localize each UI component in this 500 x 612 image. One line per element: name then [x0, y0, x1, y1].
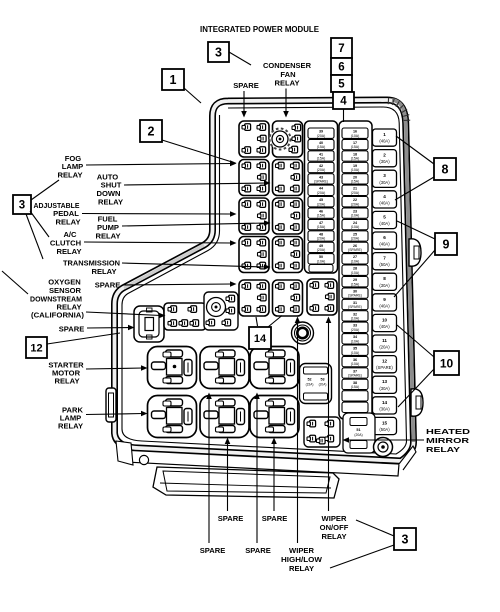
leader spare b1	[208, 397, 210, 543]
right edge tab lower	[411, 389, 423, 416]
svg-text:12: 12	[382, 359, 388, 364]
bottom right stud circle	[374, 438, 393, 457]
svg-text:7: 7	[383, 256, 386, 261]
fuse 48	[308, 231, 334, 241]
svg-text:(15A): (15A)	[351, 145, 360, 149]
fuse box outer wall (double line)	[115, 100, 414, 461]
fuse 19	[342, 162, 368, 172]
fuse 14 (large)	[373, 397, 397, 414]
mounting tray	[153, 467, 339, 498]
svg-text:(30A): (30A)	[379, 180, 390, 185]
fuse 15 (large)	[373, 417, 397, 434]
fuse 40	[308, 139, 334, 149]
right edge tab upper	[409, 239, 421, 266]
callout box 7	[331, 38, 352, 58]
svg-text:(15A): (15A)	[351, 385, 360, 389]
svg-text:ON/OFF: ON/OFF	[320, 523, 349, 532]
starter relay center dot	[173, 365, 177, 369]
relay module A4	[239, 237, 269, 273]
leader from 10	[397, 325, 434, 357]
leader from 3 bottom right	[356, 520, 394, 536]
leader wiper high/low	[297, 321, 299, 543]
svg-text:(50A): (50A)	[379, 427, 390, 432]
blank slot col1	[309, 265, 333, 273]
svg-text:(30A): (30A)	[379, 159, 390, 164]
fuse 18	[342, 151, 368, 161]
fuses 52 and 53	[300, 364, 332, 404]
svg-text:SPARE: SPARE	[233, 81, 259, 90]
svg-text:(30A): (30A)	[379, 406, 390, 411]
fuse 7 (large)	[373, 253, 397, 270]
big relay R1C2	[200, 347, 249, 389]
big relay R1C3	[250, 347, 299, 389]
fuse 16	[342, 128, 368, 138]
relay module B5	[273, 280, 303, 316]
fuse 20	[342, 174, 368, 184]
svg-text:(20A): (20A)	[317, 248, 326, 252]
svg-text:WIPER: WIPER	[289, 546, 314, 555]
svg-text:SPARE: SPARE	[95, 281, 121, 290]
fuse 5 (large)	[373, 211, 397, 228]
svg-text:3: 3	[383, 173, 386, 178]
svg-text:3: 3	[402, 533, 409, 547]
leader a/c clutch	[84, 242, 232, 243]
fuse 29	[342, 277, 368, 287]
svg-text:2: 2	[148, 125, 155, 139]
svg-text:52: 52	[307, 378, 311, 382]
svg-text:(10A): (10A)	[351, 225, 360, 229]
fuse 44	[308, 185, 334, 195]
svg-text:HIGH/LOW: HIGH/LOW	[281, 555, 323, 564]
leader fog	[86, 164, 232, 166]
svg-text:9: 9	[443, 238, 450, 252]
fuse 2 (large)	[373, 150, 397, 167]
fuse 3 (large)	[373, 170, 397, 187]
svg-text:WIPER: WIPER	[322, 514, 347, 523]
fuse 51 enclosure	[343, 413, 375, 453]
callout box 6	[331, 58, 352, 75]
relay module B2	[273, 160, 303, 196]
svg-text:(15A): (15A)	[351, 282, 360, 286]
leader adjustable pedal	[82, 213, 232, 216]
callout box 10	[434, 351, 459, 375]
fuse 42	[308, 162, 334, 172]
fuse 31	[342, 299, 368, 309]
fuse 47	[308, 219, 334, 229]
svg-text:(15A): (15A)	[351, 157, 360, 161]
blank fuse slot	[342, 402, 368, 412]
relay module C5	[307, 279, 337, 315]
svg-text:(20A): (20A)	[379, 345, 390, 350]
svg-text:MIRROR: MIRROR	[426, 436, 470, 445]
big relay R2C2	[200, 396, 249, 438]
fuse 45	[308, 197, 334, 207]
svg-text:14: 14	[382, 400, 388, 405]
left edge tab	[106, 388, 116, 422]
fuse 17	[342, 139, 368, 149]
leader from 9	[397, 221, 435, 239]
svg-text:(15A): (15A)	[317, 157, 326, 161]
callout box 3	[208, 42, 229, 62]
leader spare b2	[227, 442, 229, 511]
oxygen sensor downstream relay module	[164, 303, 206, 330]
fuse 28	[342, 265, 368, 275]
svg-text:4: 4	[383, 194, 386, 199]
svg-text:(20A): (20A)	[351, 328, 360, 332]
svg-text:(10A): (10A)	[351, 168, 360, 172]
fuse 38	[342, 379, 368, 389]
svg-text:8: 8	[442, 163, 449, 177]
leader spare 12	[87, 327, 130, 330]
svg-text:14: 14	[254, 333, 267, 345]
svg-text:(10A): (10A)	[351, 317, 360, 321]
svg-text:(40A): (40A)	[379, 139, 390, 144]
leader wiper on/off	[328, 321, 330, 511]
wiper relay module	[304, 417, 340, 447]
leaders from 14	[256, 317, 258, 326]
fuse 23	[342, 208, 368, 218]
svg-text:(10A): (10A)	[351, 134, 360, 138]
svg-text:(10A): (10A)	[351, 214, 360, 218]
leader park lamp	[86, 414, 143, 415]
svg-text:8: 8	[383, 276, 386, 281]
callout box 9	[435, 233, 457, 255]
svg-text:RELAY: RELAY	[321, 532, 346, 541]
svg-text:INTEGRATED POWER MODULE: INTEGRATED POWER MODULE	[200, 25, 320, 34]
callout box 3	[13, 195, 31, 214]
fuse 43	[308, 174, 334, 184]
svg-text:(20A): (20A)	[351, 202, 360, 206]
bottom-left corner bracket	[116, 441, 133, 465]
leader oxygen	[86, 312, 161, 316]
svg-text:(SPARE): (SPARE)	[348, 305, 362, 309]
svg-text:HEATED: HEATED	[426, 427, 471, 436]
leader from 4 stack	[343, 109, 345, 122]
svg-text:RELAY: RELAY	[54, 377, 79, 386]
relay module B3	[273, 198, 303, 234]
svg-text:(15A): (15A)	[317, 225, 326, 229]
fuse 9 (large)	[373, 294, 397, 311]
svg-text:(15A): (15A)	[306, 383, 314, 387]
svg-text:SPARE: SPARE	[218, 514, 244, 523]
svg-text:10: 10	[382, 317, 388, 322]
svg-text:(20A): (20A)	[351, 191, 360, 195]
svg-text:RELAY: RELAY	[289, 564, 314, 573]
blank fuse slot	[342, 391, 368, 401]
svg-text:RELAY: RELAY	[57, 171, 82, 180]
svg-text:53: 53	[320, 378, 324, 382]
svg-text:(10A): (10A)	[351, 362, 360, 366]
callout box 1	[162, 69, 184, 90]
base plate right end	[399, 446, 416, 470]
mini fuse enclosure right	[339, 121, 372, 419]
fuse 39	[308, 128, 334, 138]
fuse 35	[342, 345, 368, 355]
svg-text:SPARE: SPARE	[59, 325, 85, 334]
callout box 3	[394, 528, 416, 550]
fuse 13 (large)	[373, 376, 397, 393]
svg-text:(30A): (30A)	[379, 283, 390, 288]
svg-text:(10A): (10A)	[351, 271, 360, 275]
relay module A1 (spare)	[239, 121, 269, 157]
starter motor relay	[148, 347, 197, 389]
svg-text:1: 1	[383, 132, 386, 137]
svg-text:RELAY: RELAY	[55, 218, 80, 227]
fuse 8 (large)	[373, 273, 397, 290]
fuse 50	[308, 254, 334, 264]
svg-text:4: 4	[340, 96, 347, 108]
svg-text:(CALIFORNIA): (CALIFORNIA)	[31, 311, 84, 320]
svg-text:(30A): (30A)	[379, 386, 390, 391]
fuse 41	[308, 151, 334, 161]
svg-text:(SPARE): (SPARE)	[348, 374, 362, 378]
svg-text:(SPARE): (SPARE)	[314, 180, 328, 184]
svg-text:9: 9	[383, 297, 386, 302]
svg-text:RELAY: RELAY	[58, 422, 83, 431]
svg-text:51: 51	[356, 428, 360, 432]
svg-text:1: 1	[170, 73, 177, 87]
leader spare b4	[273, 442, 275, 511]
svg-text:15: 15	[382, 420, 388, 425]
svg-text:(20A): (20A)	[317, 202, 326, 206]
svg-text:(SPARE): (SPARE)	[348, 248, 362, 252]
corner hatching	[387, 98, 389, 104]
svg-text:RELAY: RELAY	[274, 79, 299, 88]
leader from 12	[47, 333, 120, 344]
relay module A3	[239, 198, 269, 234]
svg-text:11: 11	[382, 338, 387, 343]
svg-text:(10A): (10A)	[351, 351, 360, 355]
leader spare b3	[256, 397, 258, 543]
svg-text:(40A): (40A)	[379, 200, 390, 205]
svg-text:RELAY: RELAY	[56, 247, 81, 256]
svg-text:(40A): (40A)	[379, 221, 390, 226]
leader from 8	[396, 136, 434, 164]
relay module A5	[239, 280, 269, 316]
leaders from 3 left	[31, 180, 59, 200]
fuse 4 (large)	[373, 191, 397, 208]
arrow condenser	[285, 89, 287, 114]
fuse 27	[342, 254, 368, 264]
svg-text:SPARE: SPARE	[245, 546, 271, 555]
fuse 37	[342, 368, 368, 378]
svg-text:(40A): (40A)	[379, 242, 390, 247]
callout box 12	[26, 337, 47, 358]
svg-text:3: 3	[215, 46, 222, 60]
svg-text:(10A): (10A)	[351, 259, 360, 263]
svg-text:10: 10	[440, 356, 454, 370]
leader transmission	[122, 263, 266, 267]
svg-text:SPARE: SPARE	[262, 514, 288, 523]
svg-text:(20A): (20A)	[317, 237, 326, 241]
svg-text:(20A): (20A)	[319, 383, 327, 387]
callout box 14	[249, 327, 271, 349]
park lamp relay	[148, 396, 197, 438]
leader auto shut down	[124, 183, 266, 185]
relay module B4	[273, 237, 303, 273]
fuse 10 (large)	[373, 314, 397, 331]
svg-text:5: 5	[338, 79, 345, 91]
svg-text:13: 13	[382, 379, 388, 384]
bottom base plate	[121, 450, 399, 476]
svg-text:6: 6	[338, 62, 344, 74]
svg-text:12: 12	[30, 342, 42, 354]
svg-text:(15A): (15A)	[351, 180, 360, 184]
svg-text:(10A): (10A)	[351, 339, 360, 343]
callout box 2	[140, 120, 162, 142]
svg-text:CONDENSER: CONDENSER	[263, 61, 312, 70]
svg-text:(15A): (15A)	[317, 214, 326, 218]
fuse 21	[342, 185, 368, 195]
svg-text:(50A): (50A)	[379, 262, 390, 267]
svg-text:SPARE: SPARE	[200, 546, 226, 555]
fuse 36	[342, 356, 368, 366]
leader fuel pump	[122, 223, 266, 226]
bolt circle bottom-left	[139, 455, 148, 464]
big relay R2C3	[250, 396, 299, 438]
fuse 33	[342, 322, 368, 332]
fuse 22	[342, 197, 368, 207]
fuse 30	[342, 288, 368, 298]
svg-text:RELAY: RELAY	[95, 232, 120, 241]
callout box 4	[333, 92, 354, 109]
svg-text:(40A): (40A)	[379, 324, 390, 329]
mini fuse enclosure left	[305, 121, 338, 273]
fuse 1 (large)	[373, 129, 397, 146]
callout box 5	[331, 75, 352, 92]
svg-text:(20A): (20A)	[317, 168, 326, 172]
relay with circular center	[204, 292, 238, 330]
fuse 12 (large)	[373, 356, 397, 373]
leader from 2	[162, 140, 232, 162]
spare connector (callout 12)	[134, 306, 164, 342]
svg-text:(20A): (20A)	[317, 191, 326, 195]
svg-text:(SPARE): (SPARE)	[348, 294, 362, 298]
fuse 49	[308, 242, 334, 252]
leader from 1	[184, 88, 201, 103]
svg-text:(20A): (20A)	[354, 433, 362, 437]
svg-text:7: 7	[338, 43, 344, 55]
svg-text:6: 6	[383, 235, 386, 240]
callout box 8	[434, 158, 456, 180]
condenser fan relay	[270, 121, 303, 157]
fuse 26	[342, 242, 368, 252]
svg-text:(20A): (20A)	[317, 134, 326, 138]
svg-text:2: 2	[383, 153, 386, 158]
fuse 24	[342, 219, 368, 229]
leader heated mirror	[347, 439, 424, 441]
inner wall contour	[122, 107, 407, 454]
svg-text:(SPARE): (SPARE)	[376, 365, 393, 370]
relay module A2	[239, 160, 269, 196]
svg-text:RELAY: RELAY	[426, 445, 460, 454]
fuse 46	[308, 208, 334, 218]
leader from 3 top	[229, 52, 251, 65]
svg-text:RELAY: RELAY	[98, 198, 123, 207]
svg-text:(40A): (40A)	[379, 303, 390, 308]
svg-text:(10A): (10A)	[317, 259, 326, 263]
fuse 6 (large)	[373, 232, 397, 249]
svg-text:(15A): (15A)	[317, 145, 326, 149]
svg-text:RELAY: RELAY	[91, 267, 116, 276]
fuse 25	[342, 231, 368, 241]
fuse 11 (large)	[373, 335, 397, 352]
svg-text:(20A): (20A)	[351, 237, 360, 241]
fuse 34	[342, 334, 368, 344]
svg-text:3: 3	[19, 200, 25, 212]
leader starter	[86, 368, 143, 369]
leader spare a5	[122, 284, 232, 285]
svg-text:5: 5	[383, 214, 386, 219]
arrow spare top	[243, 91, 245, 113]
fuse 32	[342, 311, 368, 321]
mounting stud circle	[292, 322, 314, 344]
right edge shading	[392, 100, 414, 442]
